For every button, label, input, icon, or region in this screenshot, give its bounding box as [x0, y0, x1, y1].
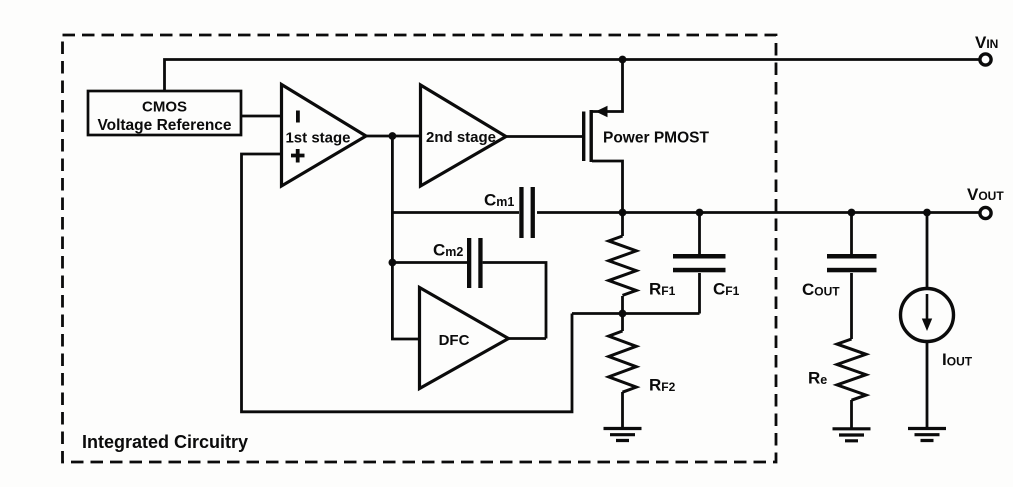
svg-text:1st stage: 1st stage — [285, 130, 350, 147]
svg-text:DFC: DFC — [439, 332, 470, 349]
svg-text:CMOS: CMOS — [142, 99, 187, 116]
svg-text:2nd stage: 2nd stage — [426, 129, 496, 146]
svg-text:Voltage Reference: Voltage Reference — [97, 117, 231, 134]
svg-text:Power PMOST: Power PMOST — [603, 129, 709, 146]
svg-text:Integrated Circuitry: Integrated Circuitry — [82, 432, 248, 452]
